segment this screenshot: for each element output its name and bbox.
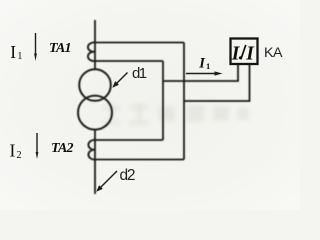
transformer T lower circle [78,96,112,130]
svg-text:1: 1 [17,51,22,62]
wire: TA2 top lead [95,139,163,141]
wire: branch node B to relay right terminal [184,64,250,101]
svg-text:d2: d2 [120,167,135,184]
wire: vertical A (x=163) TA1-bottom to TA2-top [162,61,164,140]
svg-text:d1: d1 [132,65,147,82]
wire: vertical B (x=184) TA1-top to TA2-bottom [183,43,185,160]
arrow: I1 direction (down) [34,33,37,61]
relay KA box [231,39,258,65]
label d2 [120,167,135,184]
wire: primary line upper segment [94,20,96,69]
svg-text:TA1: TA1 [49,41,71,56]
label I2 (left primary current) [10,141,22,162]
label I1 (left primary current) [10,42,22,62]
wire: primary line lower segment [94,130,96,194]
wire: TA1 bottom lead to vertical A [95,60,163,62]
svg-text:TA2: TA2 [51,141,74,156]
CT coil TA2 (secondary winding bumps) [88,140,95,160]
label d1 [132,65,147,82]
wire: TA2 bottom lead [95,159,184,161]
CT coil TA1 (secondary winding bumps) [88,42,95,61]
label I1 (secondary current) [198,56,210,72]
wire: TA1 top lead to vertical B [95,42,184,44]
svg-text:I: I [10,42,16,62]
transformer T (two-circle symbol), upper circle [79,69,111,101]
label TA2 [51,141,74,156]
svg-text:2: 2 [16,150,21,161]
arrow: secondary current I1 into relay [186,71,223,75]
svg-text:KA: KA [264,45,283,61]
svg-text:1: 1 [206,61,210,71]
node d2 arrow [96,171,117,192]
relay KA box label I./I [231,43,255,64]
wire: branch node A to relay left terminal [163,64,238,81]
arrow: I2 direction (down) [36,133,39,159]
label KA [264,45,283,61]
svg-text:I: I [10,141,16,161]
watermark [102,103,249,125]
node d1 arrow [112,73,127,88]
label TA1 [49,41,71,56]
